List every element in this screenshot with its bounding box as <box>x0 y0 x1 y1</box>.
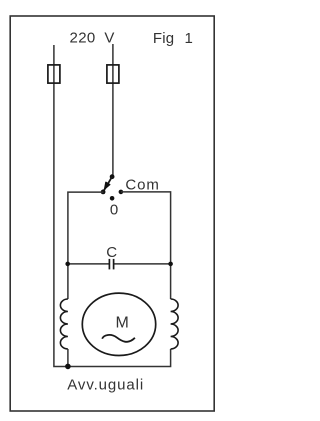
switch SW1 lever arrowhead <box>105 182 110 189</box>
switch SW1 lever <box>103 177 112 192</box>
switch contact node Com <box>119 190 124 195</box>
fuse F2 <box>107 65 119 83</box>
svg-text:0: 0 <box>110 202 118 219</box>
inductor coil left winding <box>60 299 67 349</box>
wire capacitor right <box>114 263 171 265</box>
svg-text:Avv.uguali: Avv.uguali <box>67 376 144 393</box>
border frame <box>10 16 214 411</box>
node junction bottom <box>65 364 71 370</box>
switch SW1 pivot node <box>110 174 115 179</box>
switch contact node 0 <box>110 196 115 201</box>
wire left branch lower <box>67 349 69 367</box>
svg-text:220 V: 220 V <box>70 30 115 47</box>
wire capacitor left <box>68 263 110 265</box>
motor AC sine symbol <box>102 335 135 342</box>
wire top-left to switch <box>68 192 104 299</box>
motor M1 body <box>82 293 155 355</box>
svg-text:M: M <box>116 314 129 331</box>
wire L2 (right supply) <box>112 44 114 177</box>
svg-text:C: C <box>106 244 117 261</box>
svg-text:Com: Com <box>125 176 159 193</box>
capacitor C1 plates <box>109 259 113 270</box>
node junction cap-left <box>65 262 70 267</box>
switch contact node left <box>101 190 106 195</box>
fuse F1 <box>48 65 60 83</box>
inductor coil right winding <box>171 299 179 349</box>
wire L1 (left supply, down to bottom wire) <box>54 45 171 367</box>
node junction cap-right <box>168 262 173 267</box>
svg-text:Fig 1: Fig 1 <box>153 30 193 47</box>
wire Com to top-right <box>121 192 171 299</box>
